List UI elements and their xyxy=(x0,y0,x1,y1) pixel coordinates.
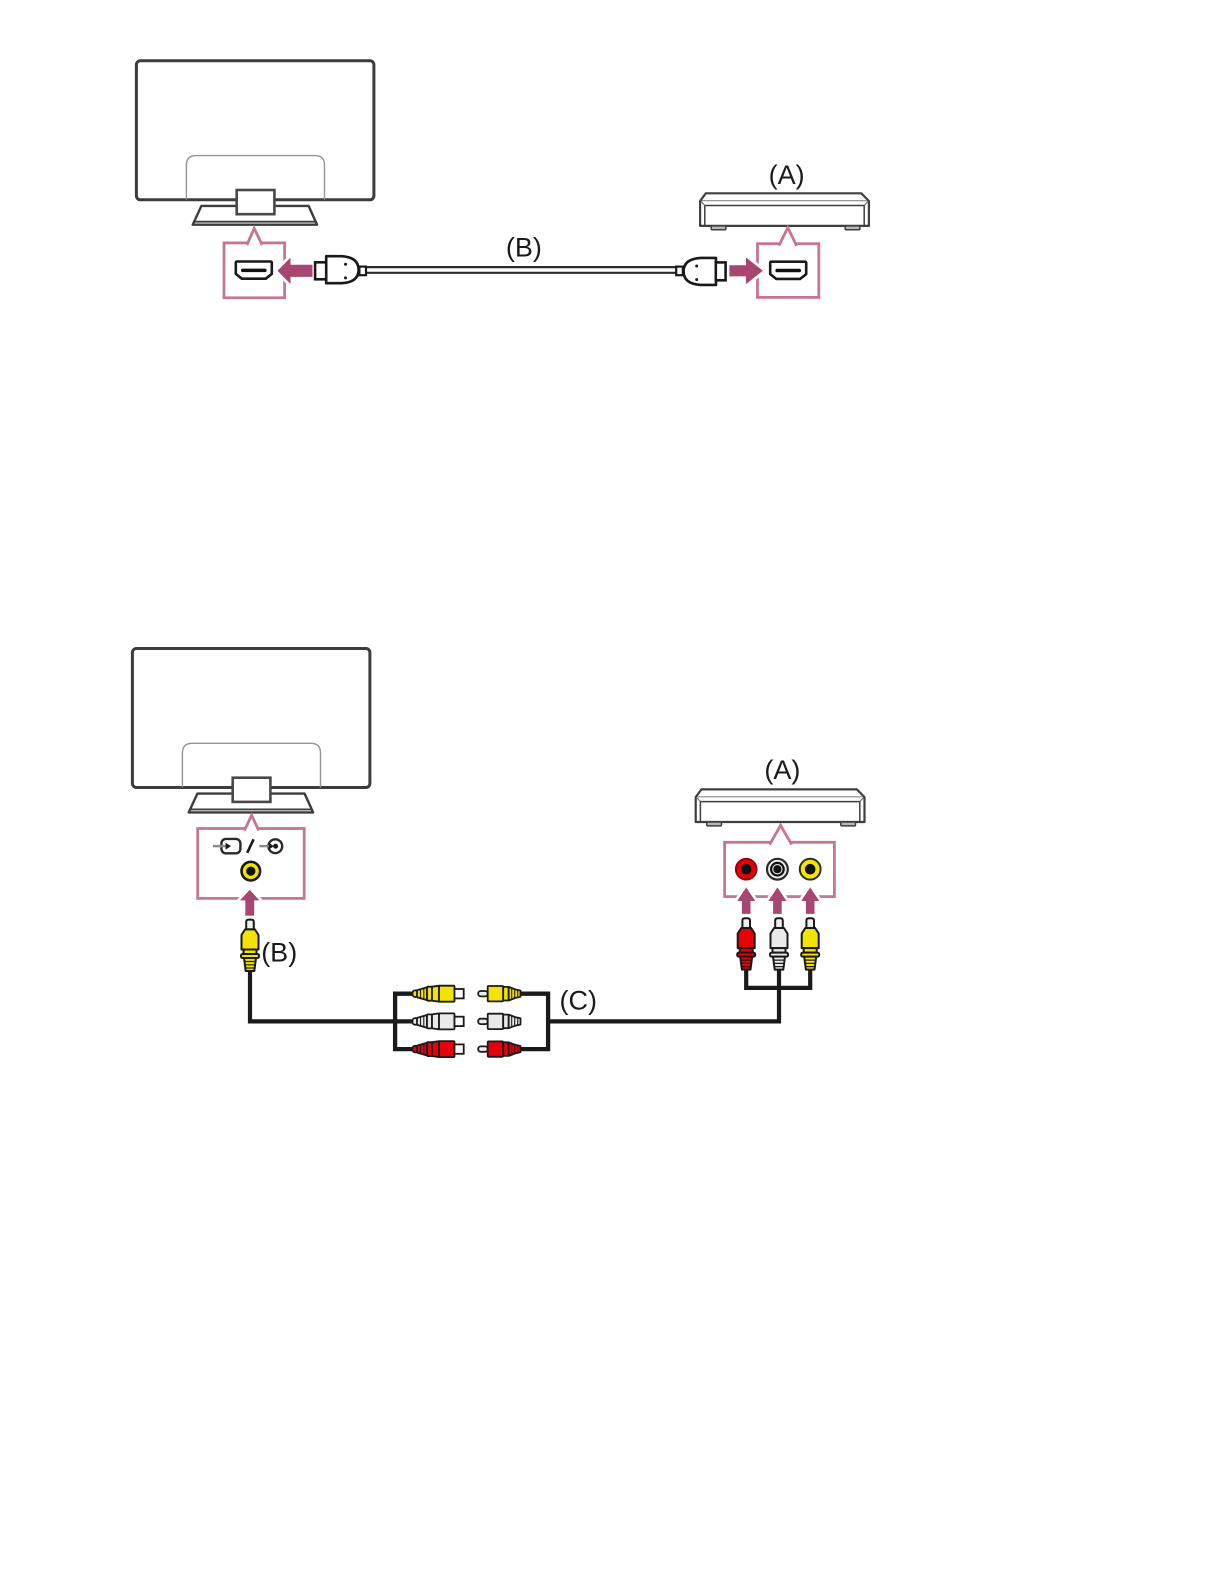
HDMI port icon (device side) xyxy=(770,262,806,279)
svg-text:(B): (B) xyxy=(261,938,297,968)
arrow into yellow jack xyxy=(801,887,819,914)
yellow video jack on TV xyxy=(242,862,261,881)
audio input icon xyxy=(259,839,282,853)
junction female yellow xyxy=(413,986,464,1002)
junction female red xyxy=(413,1041,464,1057)
red audio jack on device xyxy=(736,859,757,880)
video input icon xyxy=(213,839,241,853)
HDMI cable (B) wire xyxy=(366,267,677,273)
HDMI plug left (into TV) xyxy=(315,256,366,283)
yellow RCA plug into device xyxy=(801,918,819,969)
yellow RCA plug (B) xyxy=(241,920,259,971)
junction male red xyxy=(478,1041,520,1056)
junction left bracket wire xyxy=(395,994,412,1049)
arrow into device HDMI port xyxy=(729,258,763,285)
junction male white xyxy=(478,1014,520,1029)
callout box: device HDMI output xyxy=(758,228,819,298)
yellow video jack on device xyxy=(800,859,821,880)
device A (bottom diagram) xyxy=(696,789,865,826)
arrow into TV video jack xyxy=(240,890,259,916)
white RCA plug into device xyxy=(770,918,788,969)
callout box: device AV outputs xyxy=(725,825,835,896)
arrow into white jack xyxy=(768,887,786,914)
svg-text:(C): (C) xyxy=(560,986,597,1016)
slash separator xyxy=(247,839,253,853)
arrow into TV HDMI port xyxy=(278,258,313,284)
junction female white xyxy=(413,1013,464,1029)
white audio jack on device xyxy=(767,859,788,880)
arrow into red jack xyxy=(737,887,755,914)
svg-text:(A): (A) xyxy=(764,755,800,785)
junction male yellow xyxy=(478,986,520,1001)
junction right bracket wire xyxy=(521,994,549,1049)
HDMI port icon (TV side) xyxy=(236,262,272,279)
svg-text:(B): (B) xyxy=(506,233,542,263)
cable (C) wire to device xyxy=(546,970,779,1021)
device A (top diagram) xyxy=(700,193,869,230)
HDMI plug right (into device) xyxy=(676,258,725,285)
svg-text:(A): (A) xyxy=(769,160,805,190)
wire red plug to bar xyxy=(746,969,810,988)
red RCA plug into device xyxy=(737,918,755,969)
wire from yellow plug (B) to junction xyxy=(250,970,414,1021)
callout box: TV video/audio input xyxy=(198,815,305,898)
TV (bottom diagram) xyxy=(132,649,370,813)
TV (top diagram) xyxy=(136,61,374,225)
callout box: TV HDMI input xyxy=(224,228,285,297)
